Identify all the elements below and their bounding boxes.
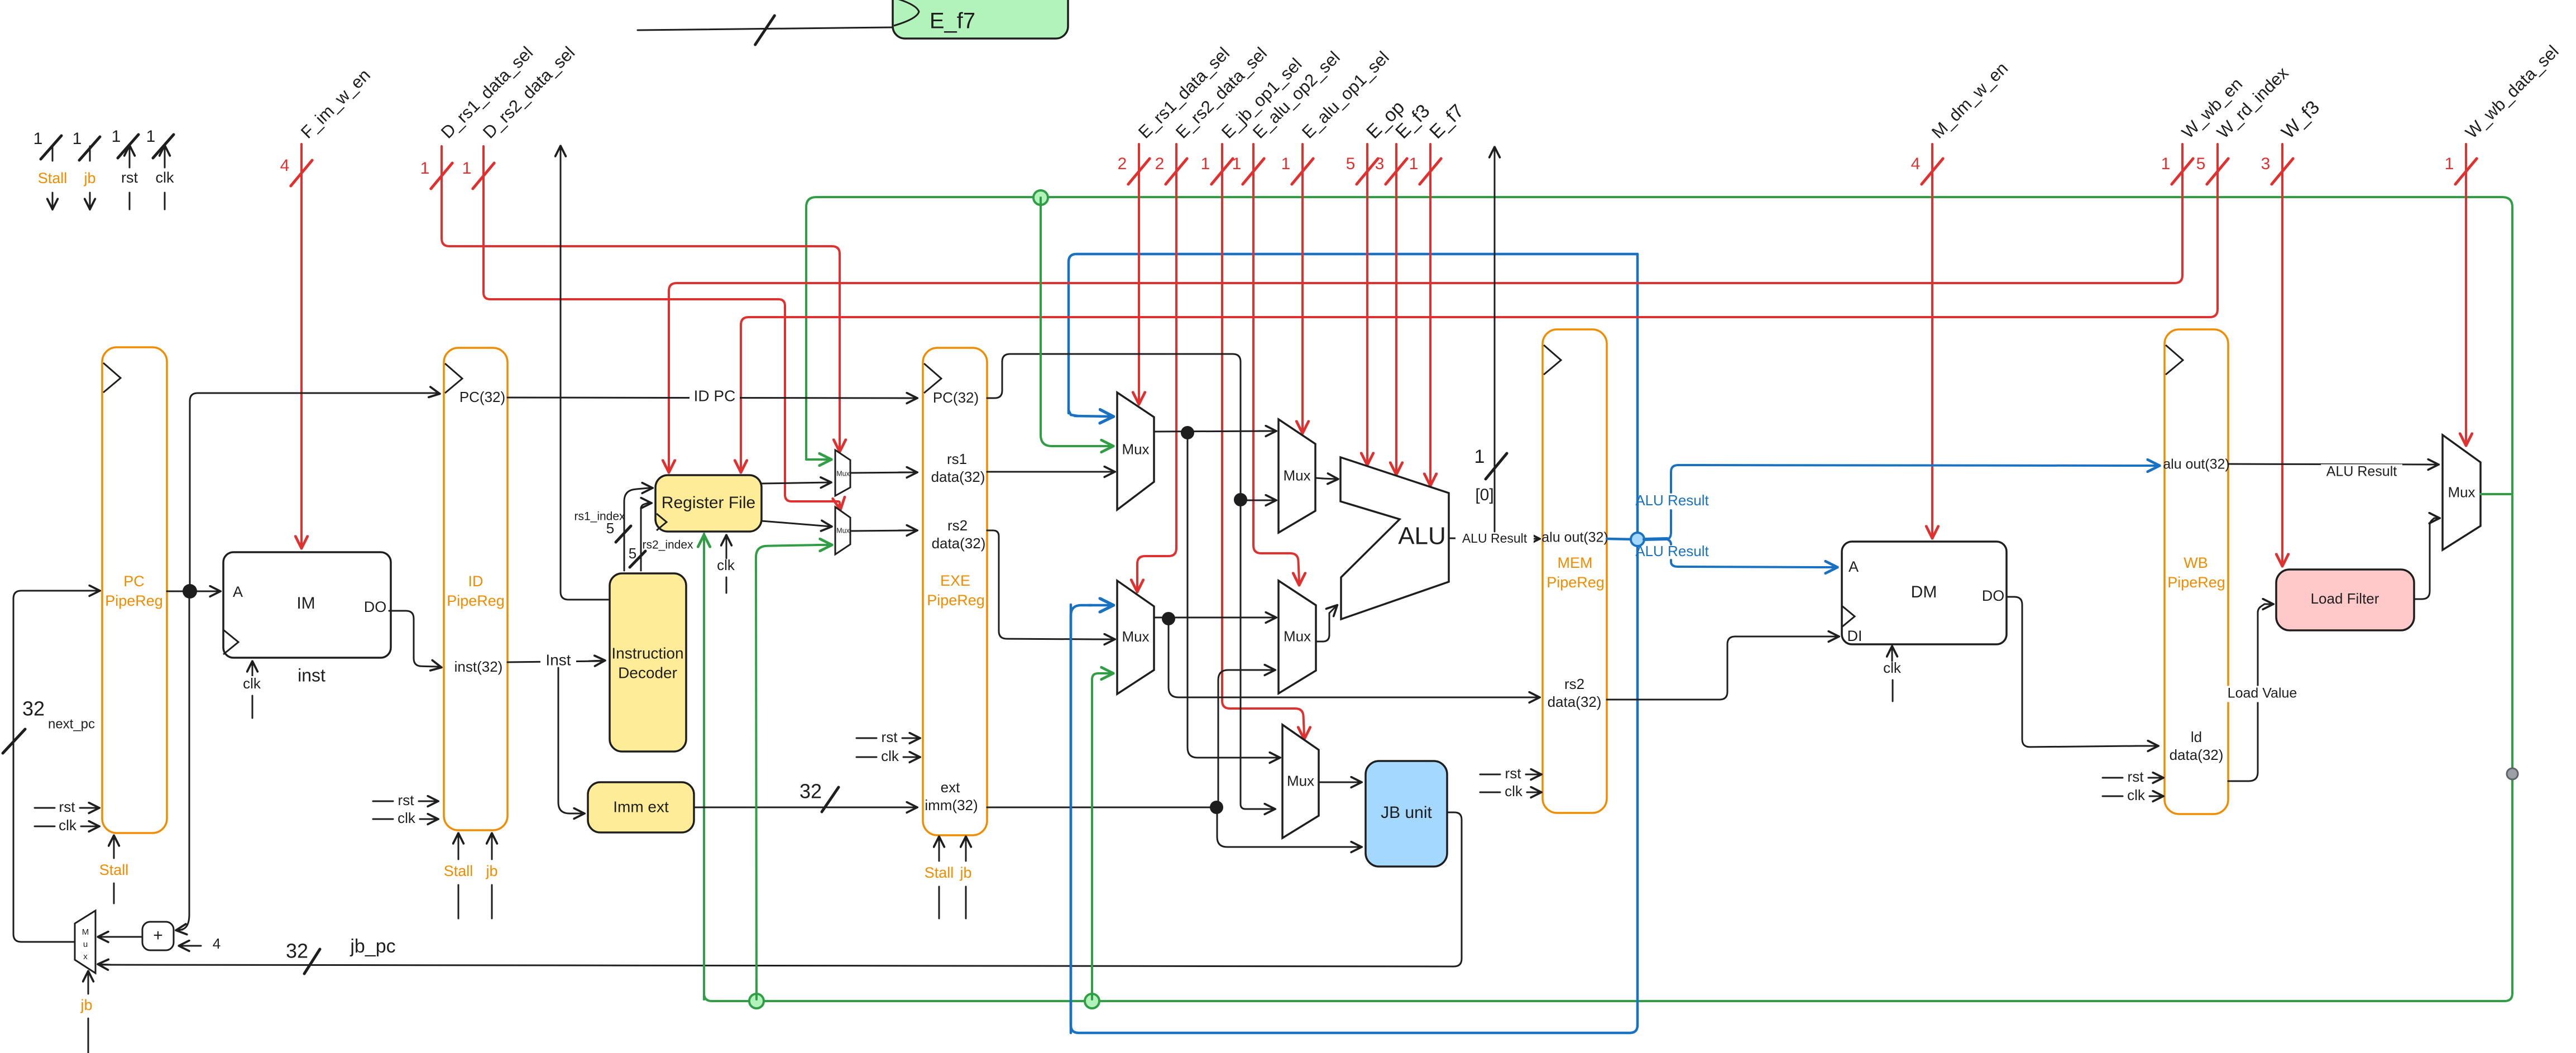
wire red W_rd_index long rail to Register File [741, 144, 2218, 469]
svg-text:clk: clk [1883, 659, 1902, 676]
wire RF rs1 data to rs1-forward mux [762, 482, 830, 484]
svg-text:rst: rst [59, 798, 76, 815]
svg-text:Imm ext: Imm ext [613, 798, 669, 815]
svg-text:PipeReg: PipeReg [927, 592, 985, 609]
wire E_f7 to ALU [1429, 144, 1431, 485]
wire blue forward into Mux1 [1069, 410, 1078, 416]
unit Imm ext [588, 782, 694, 832]
svg-text:Register File: Register File [662, 494, 755, 512]
wire writeback mux output to green rail [2481, 493, 2511, 495]
wire Imm ext output to EXE ext imm with 32 slash [694, 807, 913, 808]
wire W_wb_data_sel to writeback Mux [2465, 144, 2467, 444]
wire MEM rs2 data to DM DI [1607, 636, 1820, 700]
svg-text:clk: clk [881, 748, 899, 764]
svg-text:ld: ld [2191, 729, 2202, 745]
svg-text:rs1_index: rs1_index [574, 510, 625, 523]
junction green on bottom rail at x=1956 [1085, 994, 1099, 1008]
svg-text:rst: rst [1505, 765, 1522, 782]
svg-text:Stall: Stall [38, 170, 68, 186]
input clk into DM bottom [1892, 647, 1893, 661]
wire green writeback to rs2-forward mux [756, 545, 821, 999]
adder +4 [142, 922, 174, 950]
input clk into IM bottom [252, 662, 253, 677]
svg-text:DO: DO [364, 599, 387, 615]
junction blue ALU Result [1631, 533, 1644, 546]
svg-text:1: 1 [112, 127, 121, 146]
mux writeback (final Mux) [2443, 435, 2481, 550]
unit Register File [655, 475, 762, 532]
svg-text:ALU Result: ALU Result [2326, 464, 2397, 480]
svg-text:A: A [233, 583, 243, 600]
wire EXE PC to Mux3 and Mux5 (pc operand) [987, 354, 1251, 809]
svg-text:PipeReg: PipeReg [2167, 574, 2225, 591]
wire E_f3 to ALU [1395, 144, 1397, 473]
svg-text:E_f7: E_f7 [930, 9, 975, 33]
svg-text:ALU Result: ALU Result [1635, 543, 1709, 559]
pipeline register MEM PipeReg [1543, 329, 1607, 813]
wire rs1_index from decoder to Register File [624, 488, 649, 571]
svg-text:DM: DM [1911, 583, 1937, 601]
svg-text:JB unit: JB unit [1381, 803, 1432, 822]
input rst into WB PipeReg [2103, 777, 2123, 779]
svg-text:clk: clk [398, 810, 416, 826]
svg-text:ALU Result: ALU Result [1462, 531, 1528, 545]
svg-text:PipeReg: PipeReg [447, 592, 505, 609]
wire EXE ext imm to Mux4 and JB unit [987, 807, 1217, 808]
input rst into EXE PipeReg [856, 738, 877, 739]
wire WB ld data to Load Filter (Load Value) [2228, 604, 2264, 781]
svg-text:Inst: Inst [545, 651, 571, 668]
wire green writeback-data top rail (W_wb_data) [806, 197, 2512, 494]
wire to E_f7 register with width slash [638, 27, 892, 30]
svg-text:alu out(32): alu out(32) [1541, 530, 1608, 545]
wire decoder control bus upward (out) [561, 150, 610, 600]
svg-text:PC(32): PC(32) [459, 389, 505, 405]
constant 4 into adder [180, 945, 201, 947]
wire EXE rs1 data to Mux1 [987, 471, 1095, 473]
input jb into EXE PipeReg bottom [965, 887, 967, 918]
svg-text:EXE: EXE [940, 572, 970, 589]
wire rs1-forward mux output to EXE rs1 data [850, 472, 913, 473]
wire imm branch down into JB unit [1217, 807, 1340, 847]
svg-text:A: A [1849, 558, 1859, 575]
input rst into ID PipeReg [373, 801, 393, 802]
svg-text:1: 1 [462, 159, 472, 178]
svg-text:x: x [83, 952, 88, 961]
wire EXE PC branch into Mux3 [1241, 500, 1259, 501]
svg-text:Stall: Stall [99, 861, 129, 878]
svg-text:next_pc: next_pc [48, 716, 95, 731]
svg-text:DO: DO [1982, 587, 2005, 604]
svg-text:rs2: rs2 [1564, 676, 1584, 692]
svg-text:WB: WB [2184, 554, 2208, 571]
mux Mux2 (rs2 source) [1117, 581, 1154, 694]
input clk into WB PipeReg [2103, 796, 2123, 797]
svg-text:Stall: Stall [925, 864, 954, 881]
junction node on PC output [183, 584, 197, 599]
junction green on bottom rail at x=1355 [749, 994, 764, 1008]
svg-text:2: 2 [1155, 155, 1165, 173]
svg-text:2: 2 [1118, 155, 1127, 173]
wire E_alu_op1_sel to Mux3 [1301, 144, 1304, 432]
wire green writeback-data bottom rail [704, 496, 2512, 1001]
svg-text:Mux: Mux [1284, 628, 1311, 645]
wire green forward into Mux2 [1092, 673, 1104, 999]
wire D_rs1_data_sel to rs1 forward mux [442, 146, 840, 448]
svg-text:rst: rst [398, 792, 415, 808]
wire Mux2 output to Mux4 [1154, 617, 1272, 619]
input clk into EXE PipeReg [856, 757, 877, 758]
svg-text:clk: clk [243, 675, 261, 692]
wire blue forward into Mux2 [1071, 605, 1091, 1033]
svg-text:inst: inst [298, 665, 325, 685]
svg-text:imm(32): imm(32) [925, 797, 978, 813]
mux pc-select (M-u-x) at bottom left [75, 911, 95, 973]
svg-text:4: 4 [280, 156, 290, 175]
wire WB alu out to writeback mux (ALU Result) [2228, 464, 2431, 465]
wire blue junction stub [1644, 539, 1667, 539]
svg-text:1: 1 [2161, 155, 2171, 173]
input Stall into PC PipeReg bottom [113, 883, 115, 903]
svg-text:PipeReg: PipeReg [1546, 574, 1605, 591]
svg-text:Instruction: Instruction [611, 644, 683, 662]
input Stall into EXE PipeReg bottom [939, 887, 940, 918]
svg-text:clk: clk [717, 557, 735, 573]
junction gray on green vertical [2507, 768, 2518, 779]
wire inst branch down to Imm ext [558, 668, 581, 813]
legend signal Stall (1-bit, downward) [52, 146, 54, 161]
unit Load Filter [2276, 569, 2414, 630]
svg-text:1: 1 [420, 159, 430, 178]
svg-text:ID: ID [468, 573, 483, 590]
svg-text:1: 1 [1474, 446, 1485, 467]
svg-text:1: 1 [1281, 155, 1291, 173]
svg-text:rs2_index: rs2_index [642, 539, 693, 552]
svg-text:32: 32 [22, 697, 45, 720]
svg-text:data(32): data(32) [931, 468, 985, 485]
svg-text:+: + [153, 926, 163, 945]
wire rs2_index from decoder to Register File [641, 503, 648, 571]
svg-text:clk: clk [2127, 787, 2146, 803]
svg-text:3: 3 [1375, 155, 1385, 173]
wire D_rs2_data_sel to rs2 forward mux [483, 146, 840, 505]
wire E_rs1_data_sel to Mux1 [1138, 144, 1140, 403]
wire IM DO to ID PipeReg inst [389, 611, 438, 667]
pipeline register PC PipeReg [102, 347, 167, 833]
wire RF rs2 data to rs2-forward mux [762, 521, 831, 526]
junction node on Mux1 output [1181, 426, 1194, 439]
wire E_alu_op2_sel to Mux4 [1253, 144, 1299, 582]
svg-text:clk: clk [156, 169, 174, 186]
wire imm branch up into Mux4 [1218, 670, 1251, 807]
svg-text:5: 5 [606, 520, 614, 537]
svg-text:rst: rst [2128, 768, 2144, 785]
svg-text:1: 1 [1232, 155, 1242, 173]
input clk into Register File bottom [726, 536, 727, 558]
svg-text:PC(32): PC(32) [933, 389, 979, 406]
wire DM DO to WB ld data [2007, 597, 2138, 747]
svg-text:Load Value: Load Value [2228, 686, 2297, 701]
wire Load Filter output to writeback mux [2414, 518, 2434, 599]
wire ALU result to MEM PipeReg [1449, 538, 1535, 539]
wire PC output to IM with junction [167, 591, 219, 592]
mux Mux1 (rs1 source) [1117, 393, 1154, 510]
alu ALU [1340, 457, 1449, 619]
register E_f7 (green box, clipped at top) [893, 0, 1068, 39]
svg-text:jb: jb [83, 170, 95, 186]
svg-text:data(32): data(32) [932, 535, 986, 552]
pipeline register ID PipeReg [444, 348, 507, 830]
svg-text:clk: clk [1505, 783, 1523, 800]
svg-text:u: u [83, 940, 88, 949]
wire Mux3 output into ALU [1315, 478, 1323, 478]
wire Mux5 output into JB unit [1319, 782, 1340, 783]
mux Mux5 (JB op1: rs1/PC) [1282, 725, 1319, 838]
svg-text:alu out(32): alu out(32) [2163, 457, 2230, 472]
input jb into ID PipeReg bottom [491, 885, 493, 918]
svg-text:Mux: Mux [1287, 773, 1314, 789]
unit JB unit (jump/branch) [1366, 761, 1447, 867]
svg-text:5: 5 [629, 545, 636, 562]
svg-text:32: 32 [799, 780, 822, 803]
wire next_pc from pc-mux up into PC PipeReg [13, 591, 96, 942]
wire blue down branch to DM A (ALU Result) [1668, 540, 1671, 544]
svg-text:Mux: Mux [2448, 484, 2475, 500]
svg-text:Decoder: Decoder [618, 664, 677, 681]
wire PC value up to ID PipeReg (fetch PC) [190, 393, 435, 591]
input Stall into ID PipeReg bottom [458, 885, 459, 918]
unit Instruction Decoder [610, 573, 686, 752]
wire blue ALU-result forward rail [1069, 254, 1637, 413]
svg-text:Stall: Stall [444, 863, 473, 879]
mux rs2-forward (small) [835, 507, 850, 554]
input clk into ID PipeReg [373, 819, 393, 820]
svg-text:Mux: Mux [1283, 467, 1310, 484]
wire M_dm_w_en to DM [1931, 144, 1933, 537]
memory IM (instruction memory) [223, 552, 391, 658]
input rst into PC PipeReg [35, 807, 55, 809]
svg-text:jb: jb [80, 997, 92, 1013]
svg-text:ext: ext [941, 779, 960, 796]
wire W_f3 to Load Filter [2281, 144, 2283, 565]
input clk into MEM PipeReg [1480, 792, 1500, 793]
svg-text:5: 5 [1346, 155, 1356, 173]
svg-text:data(32): data(32) [1548, 693, 1602, 710]
wire green writeback to rs1-forward mux [806, 458, 830, 461]
wire jb_pc from JB unit to pc-mux [102, 812, 1462, 966]
junction node on imm wire [1210, 801, 1223, 814]
svg-text:1: 1 [2445, 155, 2454, 173]
wire E_jb_op1_sel to Mux5 [1222, 144, 1304, 736]
mux Mux4 (ALU op2: rs2/imm) [1279, 581, 1316, 693]
wire MEM alu out to blue junction [1607, 539, 1634, 539]
wire EXE rs2 data to Mux2 [987, 530, 1094, 639]
svg-text:M: M [82, 927, 89, 937]
wire E_op to ALU [1366, 144, 1368, 464]
svg-text:Mux: Mux [1122, 441, 1149, 457]
wire rs2-forward mux output to EXE rs2 data [850, 530, 913, 531]
wire adder output to pc-mux [102, 936, 142, 938]
svg-text:1: 1 [73, 130, 82, 148]
svg-text:IM: IM [296, 594, 315, 612]
legend signal rst (1-bit, upward) [129, 146, 131, 167]
svg-text:data(32): data(32) [2170, 746, 2224, 763]
svg-text:4: 4 [213, 935, 221, 952]
svg-text:1: 1 [33, 130, 43, 148]
wire ALU result bit0 tap upward [1494, 151, 1496, 532]
wire ID PC to EXE PipeReg (ID PC) [507, 398, 913, 398]
wire green writeback into Register File bottom [703, 536, 705, 999]
svg-text:ID PC: ID PC [694, 387, 736, 404]
wire Mux2 output down to MEM rs2 data [1169, 619, 1507, 697]
wire PC value down to +4 adder [181, 591, 189, 930]
wire green forward into Mux1 [1041, 198, 1083, 446]
svg-text:rs2: rs2 [947, 517, 968, 534]
svg-text:1: 1 [1201, 155, 1210, 173]
wire Mux1 output down to Mux5 [1188, 433, 1251, 758]
svg-text:DI: DI [1847, 628, 1862, 644]
svg-text:rst: rst [882, 729, 898, 745]
svg-text:jb_pc: jb_pc [349, 936, 395, 957]
legend signal clk (1-bit, upward) [164, 146, 166, 167]
mux rs1-forward (small) [835, 450, 850, 496]
svg-text:1: 1 [1409, 155, 1419, 173]
svg-text:5: 5 [2196, 155, 2206, 173]
svg-text:ALU Result: ALU Result [1635, 492, 1709, 509]
svg-text:1: 1 [146, 127, 156, 146]
memory DM (data memory) [1842, 542, 2007, 644]
svg-text:Mux: Mux [836, 470, 850, 477]
svg-text:inst(32): inst(32) [454, 658, 503, 675]
svg-text:3: 3 [2261, 155, 2271, 173]
wire F_im_w_en down to IM [300, 144, 303, 547]
wire Mux4 output into ALU [1316, 613, 1329, 642]
svg-text:jb: jb [959, 864, 971, 881]
junction node EXE PC to Mux3 [1234, 493, 1247, 506]
wire red W_wb_en long rail to Register File [669, 144, 2182, 469]
wire Mux1 output to Mux3 [1154, 431, 1272, 432]
svg-text:jb: jb [485, 863, 497, 879]
svg-text:rst: rst [121, 169, 138, 186]
junction node on Mux2 output [1162, 612, 1175, 625]
input rst into MEM PipeReg [1480, 774, 1500, 776]
pipeline register WB PipeReg [2165, 329, 2228, 814]
wire blue up branch to WB alu out (ALU Result) [1668, 510, 1671, 539]
pipeline register EXE PipeReg [923, 348, 987, 835]
svg-text:MEM: MEM [1558, 554, 1593, 571]
legend signal jb (1-bit, downward) [89, 146, 91, 161]
junction green on top rail feeding Mux op1-forward [1033, 190, 1048, 205]
mux Mux3 (ALU op1: PC/rs1) [1279, 419, 1315, 533]
wire E_rs2_data_sel to Mux2 [1137, 144, 1176, 588]
svg-text:clk: clk [59, 817, 77, 834]
svg-text:ALU: ALU [1398, 523, 1446, 550]
svg-text:Mux: Mux [836, 526, 850, 534]
input jb into pc-mux bottom [88, 1018, 89, 1053]
svg-text:rs1: rs1 [947, 451, 967, 467]
svg-text:[0]: [0] [1475, 486, 1493, 504]
svg-text:Load Filter: Load Filter [2311, 590, 2379, 607]
svg-text:Mux: Mux [1122, 628, 1149, 645]
input clk into PC PipeReg [35, 826, 55, 827]
wire inst to Instruction Decoder (Inst) [507, 661, 602, 662]
svg-text:4: 4 [1911, 155, 1921, 173]
svg-text:PipeReg: PipeReg [105, 592, 163, 609]
svg-text:PC: PC [123, 573, 145, 590]
svg-text:32: 32 [286, 940, 308, 963]
